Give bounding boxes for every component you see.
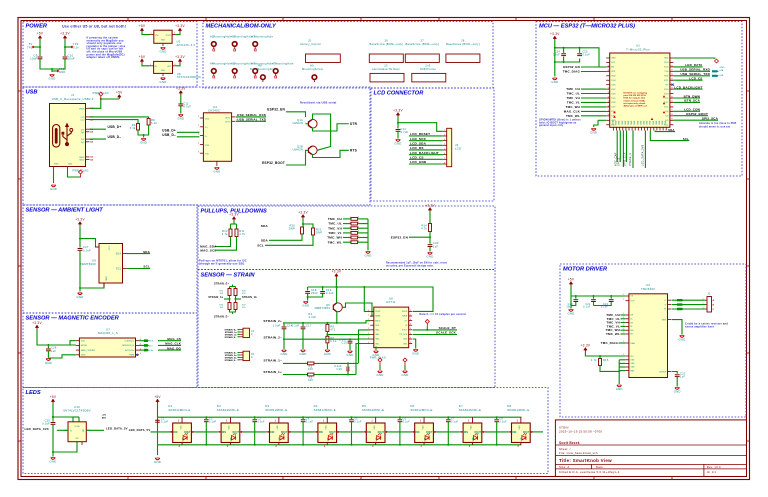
- svg-text:3: 3: [517, 446, 519, 448]
- wire CC1: [90, 117, 149, 119]
- resistor R17: [234, 303, 237, 310]
- wire led rail data: [151, 431, 173, 433]
- svg-text:GND: GND: [613, 120, 615, 125]
- wire motor mode: [672, 372, 678, 374]
- wire pullup2: [302, 219, 313, 228]
- screw 2x3: [412, 64, 446, 82]
- label LED_DATA_5V b: [129, 428, 151, 432]
- svg-text:GND: GND: [720, 67, 725, 69]
- wire shifter out: [86, 429, 104, 431]
- svg-text:SVN: SVN: [611, 76, 616, 78]
- resistor R9: [326, 336, 337, 343]
- svg-text:4.7uF: 4.7uF: [183, 104, 191, 108]
- svg-text:3: 3: [275, 446, 277, 448]
- wire c28 drop: [47, 345, 49, 348]
- svg-text:LCD_RESET: LCD_RESET: [410, 132, 430, 136]
- svg-text:12: 12: [608, 92, 610, 94]
- svg-text:0.1uF: 0.1uF: [306, 421, 314, 424]
- svg-text:VBUS: VBUS: [79, 108, 85, 110]
- svg-text:USB_D–: USB_D–: [162, 133, 176, 137]
- wire motor pwr rail: [571, 286, 625, 306]
- connector J1 USB-C: [50, 104, 94, 171]
- power +5V VBUS: [116, 91, 123, 99]
- svg-text:C16: C16: [336, 367, 342, 371]
- power +3.3V strain: [332, 270, 342, 278]
- svg-text:TMC_UL: TMC_UL: [328, 222, 342, 226]
- wire cap C5: [351, 416, 353, 446]
- svg-text:GND: GND: [154, 460, 161, 464]
- pwr flag strain bottom: [370, 356, 407, 371]
- svg-text:1: 1: [178, 420, 180, 422]
- wire c29 gnd: [52, 424, 77, 456]
- wire mcu right top: [673, 57, 715, 60]
- title block frame: [555, 420, 746, 477]
- section box SENSOR AMBIENT LIGHT: [23, 205, 197, 313]
- wire tmc diag: [619, 342, 626, 344]
- wire mcu right pins: [673, 67, 718, 120]
- svg-text:STRAIN_1a: STRAIN_1a: [208, 296, 223, 299]
- wire hx gnd left: [375, 347, 377, 351]
- svg-text:0.1uF: 0.1uF: [582, 53, 590, 57]
- svg-text:A4: A4: [90, 131, 93, 134]
- wire c15: [349, 339, 351, 350]
- svg-text:circuitry, per Espressif desig: circuitry, per Espressif design note.: [386, 265, 434, 268]
- svg-text:USB_D–: USB_D–: [108, 135, 122, 139]
- connector J5 dummy: [300, 39, 340, 63]
- wire hx gnd right: [413, 339, 416, 349]
- svg-text:350: 350: [220, 293, 224, 295]
- wire data 4: [291, 431, 314, 433]
- svg-text:TMC_UH: TMC_UH: [328, 217, 343, 221]
- connector J2 motor: [703, 292, 715, 313]
- ic U7 magnetic encoder: [76, 338, 141, 357]
- svg-text:A4: A4: [90, 158, 93, 161]
- wire q4 emitter: [336, 312, 338, 324]
- wire pulldown bus: [367, 219, 369, 251]
- wire q1 out: [313, 124, 349, 131]
- wire VBUS to +5V: [90, 98, 120, 108]
- svg-text:VDD: VDD: [81, 340, 86, 342]
- svg-text:350: 350: [242, 307, 246, 309]
- ground hx right: [412, 350, 419, 356]
- svg-text:STRAIN_2–: STRAIN_2–: [264, 335, 283, 339]
- svg-text:3: 3: [421, 446, 423, 448]
- capacitor C11: [178, 101, 191, 108]
- wire U8 in: [142, 63, 150, 66]
- wire q2 out: [313, 150, 349, 157]
- svg-text:LCD_BACKLIGHT: LCD_BACKLIGHT: [410, 151, 439, 155]
- wire strain caps gnd: [307, 293, 323, 300]
- power +5V U8: [139, 55, 146, 63]
- labels J4: [224, 329, 237, 339]
- labels J6: [224, 352, 237, 362]
- svg-text:1: 1: [368, 333, 369, 335]
- svg-text:GND: GND: [281, 352, 288, 356]
- mounting hole H2: [231, 35, 253, 52]
- svg-text:MAG_CLK: MAG_CLK: [165, 342, 181, 346]
- svg-text:21: 21: [671, 65, 673, 67]
- ground strain caps: [302, 302, 309, 308]
- svg-text:GND: GND: [630, 363, 635, 365]
- ground pulldowns: [365, 252, 372, 258]
- svg-text:BaseMountingScrew: BaseMountingScrew: [250, 67, 278, 71]
- wire strain1m rail: [283, 362, 358, 364]
- svg-text:SDA: SDA: [261, 224, 269, 228]
- svg-text:1: 1: [275, 420, 277, 422]
- svg-text:3: 3: [444, 139, 445, 141]
- svg-text:SDA: SDA: [261, 238, 269, 242]
- section box POWER: [23, 22, 197, 88]
- svg-text:1: 1: [444, 130, 445, 132]
- svg-text:9: 9: [410, 314, 411, 316]
- svg-text:0.1uF: 0.1uF: [42, 422, 50, 426]
- svg-text:ESP32_EN: ESP32_EN: [391, 235, 409, 239]
- svg-text:TMC_WL: TMC_WL: [328, 240, 342, 244]
- svg-text:A4: A4: [90, 141, 93, 144]
- svg-text:3.3uF: 3.3uF: [309, 315, 317, 319]
- capacitor C25: [577, 50, 590, 57]
- svg-text:RTS: RTS: [350, 148, 357, 152]
- svg-text:DIN: DIN: [416, 432, 420, 434]
- svg-text:RXD: RXD: [205, 145, 210, 147]
- svg-text:1: 1: [368, 310, 369, 312]
- svg-text:1.5uF: 1.5uF: [273, 324, 281, 328]
- wire strain2m rail: [283, 338, 370, 340]
- svg-text:GND: GND: [637, 120, 639, 125]
- svg-text:LCD_RS: LCD_RS: [410, 146, 424, 150]
- svg-text:C17: C17: [306, 324, 312, 328]
- svg-text:CSn: CSn: [149, 350, 154, 352]
- svg-text:1: 1: [198, 116, 199, 118]
- svg-text:+3.3V: +3.3V: [425, 204, 435, 208]
- svg-text:LCD_SDA: LCD_SDA: [410, 142, 427, 146]
- capacitor C17: [292, 324, 312, 329]
- svg-text:100: 100: [308, 378, 313, 382]
- svg-text:DIN: DIN: [512, 432, 516, 434]
- svg-text:21: 21: [671, 70, 673, 72]
- led D5: [363, 417, 388, 448]
- svg-text:MAG_CLK: MAG_CLK: [564, 110, 581, 114]
- pwr_flag VBUS: [93, 91, 109, 100]
- svg-text:LED_DATA_3V3: LED_DATA_3V3: [642, 144, 645, 166]
- svg-text:GND: GND: [160, 80, 167, 84]
- led D6: [412, 417, 437, 448]
- svg-text:4.7k: 4.7k: [222, 232, 228, 236]
- wire motor brk: [672, 320, 683, 335]
- label U8 value: [177, 72, 201, 79]
- resistor R15: [591, 358, 609, 366]
- svg-text:12: 12: [608, 96, 610, 98]
- power +3.3V ambient: [75, 218, 85, 226]
- svg-text:SHLD: SHLD: [54, 164, 60, 166]
- label MAG_SCL: [200, 248, 216, 252]
- connector J4 strain1: [238, 328, 255, 337]
- svg-text:21: 21: [671, 119, 673, 121]
- svg-text:C27: C27: [83, 245, 89, 249]
- svg-text:4: 4: [140, 353, 141, 355]
- svg-text:3: 3: [372, 446, 374, 448]
- label D4: [314, 404, 336, 412]
- svg-text:LCD_CS: LCD_CS: [410, 156, 424, 160]
- label U10: [63, 405, 91, 413]
- svg-text:0.1uF: 0.1uF: [583, 306, 591, 309]
- transistor Q4: [315, 303, 343, 312]
- wire q4 base: [342, 303, 372, 316]
- svg-text:SCL: SCL: [116, 267, 122, 270]
- wire cap C4: [302, 416, 304, 446]
- svg-text:350: 350: [242, 293, 246, 295]
- svg-text:Reset/boot via USB serial: Reset/boot via USB serial: [300, 101, 337, 105]
- ground r8 r9: [324, 350, 331, 356]
- svg-text:1: 1: [703, 299, 704, 301]
- note pullups i2c: [199, 259, 247, 266]
- capacitor C5: [349, 418, 362, 424]
- svg-text:C15: C15: [341, 341, 347, 345]
- wire shifter in: [57, 429, 68, 431]
- svg-text:DTR: DTR: [350, 122, 358, 126]
- section box SENSOR MAGNETIC ENCODER: [23, 313, 197, 388]
- label SCL mcu: [683, 137, 689, 141]
- wire cap C2: [205, 416, 207, 446]
- svg-text:3: 3: [198, 134, 199, 136]
- svg-text:+3.3V: +3.3V: [298, 211, 308, 215]
- label TMC_DIAG mtr: [601, 341, 619, 345]
- svg-text:SPI2_CLK: SPI2_CLK: [624, 152, 627, 166]
- svg-text:+5V: +5V: [139, 55, 146, 59]
- svg-text:ESP32_EN: ESP32_EN: [563, 65, 580, 69]
- power +5V shifter: [50, 395, 57, 403]
- led D7: [460, 417, 485, 448]
- svg-text:SK6812MINI–E: SK6812MINI–E: [314, 408, 336, 412]
- wire motor vio: [585, 352, 625, 357]
- svg-text:+5V: +5V: [37, 32, 44, 36]
- svg-text:0.1uF: 0.1uF: [326, 291, 334, 295]
- screw 27: [405, 39, 439, 63]
- svg-text:1: 1: [349, 222, 350, 224]
- wire cap C6: [399, 416, 401, 446]
- ground hx left: [373, 351, 380, 357]
- wire Dn2: [90, 138, 107, 140]
- svg-text:GND: GND: [628, 120, 630, 125]
- wire TP1: [33, 40, 41, 56]
- svg-text:7: 7: [444, 158, 445, 160]
- capacitor C23: [675, 372, 686, 379]
- svg-text:SENSOR — STRAIN: SENSOR — STRAIN: [201, 273, 256, 279]
- svg-text:UMH3N: UMH3N: [293, 147, 303, 151]
- section box MECHANICAL/BOM-ONLY: [203, 22, 493, 89]
- svg-text:1: 1: [349, 226, 350, 228]
- svg-text:Rev: v0.0: Rev: v0.0: [707, 465, 721, 469]
- power +5V motor: [568, 278, 575, 286]
- svg-text:LED_DATA: LED_DATA: [685, 63, 703, 67]
- nc cross encoder: [136, 354, 138, 356]
- svg-text:12: 12: [608, 88, 610, 90]
- svg-text:MODE: MODE: [81, 345, 88, 347]
- svg-text:MountingHole: MountingHole: [275, 62, 294, 66]
- svg-text:GND: GND: [161, 40, 166, 42]
- svg-text:A4: A4: [90, 156, 93, 159]
- svg-text:1: 1: [517, 420, 519, 422]
- capacitor C29: [42, 419, 55, 426]
- svg-text:12: 12: [608, 65, 610, 67]
- svg-text:GND: GND: [50, 460, 57, 464]
- power +3.3V pullup2: [298, 211, 308, 219]
- wire cap C7: [447, 416, 449, 446]
- svg-text:27: 27: [421, 39, 425, 43]
- svg-text:GND: GND: [106, 276, 108, 281]
- svg-text:21: 21: [671, 96, 673, 98]
- svg-text:TMC_DIAG: TMC_DIAG: [601, 341, 619, 345]
- svg-text:OUT2: OUT2: [225, 122, 231, 124]
- svg-text:IO15 for outputs that: IO15 for outputs that: [624, 97, 646, 100]
- svg-text:USB_C_Receptacle_USB2.0: USB_C_Receptacle_USB2.0: [52, 97, 94, 101]
- svg-text:LCD_CON: LCD_CON: [684, 108, 700, 112]
- svg-text:adapter taken off U8/EN.: adapter taken off U8/EN.: [87, 56, 121, 59]
- svg-text:general input only: general input only: [539, 124, 564, 127]
- capacitor C2: [204, 418, 217, 424]
- svg-text:B07: B07: [102, 418, 107, 420]
- capacitor C1: [155, 418, 168, 424]
- ground LCD: [395, 140, 402, 146]
- wire led vert: [157, 403, 159, 455]
- section box LEDS: [23, 388, 548, 474]
- power +3.3V MCU: [550, 32, 560, 40]
- resistor R11: [235, 229, 246, 237]
- svg-text:10uF: 10uF: [30, 57, 37, 61]
- label USB_D+ a: [108, 125, 122, 129]
- wire lcd cap dn: [397, 131, 399, 138]
- svg-text:1: 1: [623, 299, 624, 301]
- svg-text:GND: GND: [77, 295, 84, 299]
- svg-text:3.3v: 3.3v: [73, 45, 79, 49]
- svg-text:+5V: +5V: [154, 395, 161, 399]
- capacitor C15: [339, 338, 352, 345]
- svg-text:BaseScrew [BOM—only]: BaseScrew [BOM—only]: [370, 42, 404, 46]
- svg-text:USB_SERIAL_RXD: USB_SERIAL_RXD: [237, 113, 266, 117]
- svg-text:PWM: PWM: [129, 355, 134, 357]
- capacitor C24: [553, 50, 566, 57]
- connector J6 strain2: [238, 351, 255, 360]
- svg-text:DIN: DIN: [367, 432, 371, 434]
- svg-text:GND: GND: [659, 120, 661, 125]
- resistor R10: [228, 289, 231, 296]
- wire motor W: [672, 308, 706, 310]
- wire cap C3: [254, 416, 256, 446]
- svg-text:3: 3: [324, 446, 326, 448]
- svg-text:(though we’ll generally use SS: (though we’ll generally use SSI): [199, 262, 244, 266]
- wire usb esd2: [177, 136, 199, 138]
- svg-text:A: A: [713, 299, 715, 302]
- svg-text:STRAIN_1+: STRAIN_1+: [263, 370, 282, 374]
- svg-text:AVDD: AVDD: [375, 319, 381, 322]
- ground encoder: [45, 359, 52, 365]
- svg-text:T–Micro32_Plus: T–Micro32_Plus: [626, 48, 650, 52]
- label USB_D- a: [108, 135, 122, 139]
- note reset/boot: [300, 101, 337, 105]
- wire sda mcu: [655, 131, 675, 132]
- svg-text:SK6812MINI–E: SK6812MINI–E: [362, 408, 384, 412]
- svg-text:STRAIN_E–: STRAIN_E–: [224, 336, 237, 339]
- wire strain2p rail: [283, 321, 370, 324]
- svg-text:GND: GND: [324, 352, 331, 356]
- resistor R21: [312, 227, 323, 235]
- svg-text:GND: GND: [630, 360, 635, 362]
- label J1: [71, 93, 75, 97]
- mounting screws H8 H9: [250, 64, 323, 83]
- wire hx left misc: [356, 330, 370, 375]
- svg-text:21: 21: [671, 79, 673, 81]
- capacitor C8: [494, 418, 507, 424]
- svg-text:+5V: +5V: [102, 415, 106, 417]
- svg-text:4: 4: [198, 143, 199, 145]
- svg-text:GND: GND: [619, 120, 621, 125]
- svg-text:9: 9: [410, 333, 411, 335]
- svg-text:GND: GND: [161, 70, 166, 72]
- section box MOTOR DRIVER: [560, 264, 746, 417]
- ic U10 level shifter: [64, 422, 90, 445]
- svg-text:12: 12: [608, 101, 610, 103]
- label U5 value: [177, 40, 196, 47]
- svg-text:alumiGlass/TE Rear: alumiGlass/TE Rear: [372, 67, 400, 71]
- svg-text:GND: GND: [625, 120, 627, 125]
- resistor R8: [147, 118, 157, 125]
- svg-text:GND: GND: [653, 120, 655, 125]
- svg-text:GND: GND: [81, 355, 86, 357]
- svg-text:GND: GND: [302, 304, 309, 308]
- svg-text:VDD: VDD: [277, 425, 279, 430]
- wire esd out1: [236, 116, 266, 118]
- svg-text:GND: GND: [412, 352, 419, 356]
- svg-text:VSUP: VSUP: [375, 311, 381, 313]
- power +5V leds: [154, 395, 161, 403]
- power +3.3V encoder: [32, 321, 42, 329]
- section box PULLUPS PULLDOWNS: [198, 206, 495, 270]
- svg-text:Id: 1/1: Id: 1/1: [707, 470, 717, 474]
- svg-text:GND: GND: [590, 131, 597, 135]
- ic U9 light sensor: [95, 244, 127, 288]
- svg-text:VCCA: VCCA: [75, 425, 81, 428]
- note mcu left: [539, 119, 581, 128]
- power +3.3V motor: [581, 344, 591, 352]
- capacitor C16: [334, 364, 349, 371]
- svg-text:VIN: VIN: [155, 35, 159, 37]
- svg-text:GND: GND: [160, 50, 167, 54]
- label MAG_SDA: [200, 245, 217, 249]
- svg-text:VBG: VBG: [403, 343, 408, 345]
- svg-text:GND: GND: [647, 120, 649, 125]
- svg-text:4.7k: 4.7k: [239, 232, 245, 236]
- ground C11: [177, 115, 184, 121]
- svg-text:6: 6: [444, 153, 445, 155]
- svg-text:2: 2: [358, 222, 359, 224]
- svg-text:J5: J5: [308, 39, 312, 43]
- svg-text:VDD: VDD: [422, 425, 424, 430]
- svg-text:GND: GND: [631, 120, 633, 125]
- svg-text:LEDS: LEDS: [26, 390, 41, 396]
- svg-text:SDA: SDA: [143, 250, 151, 254]
- svg-text:SCL: SCL: [257, 243, 264, 247]
- mounting hole H7: [272, 62, 294, 79]
- label U6: [386, 297, 396, 305]
- svg-text:1: 1: [151, 33, 152, 35]
- ground motor caps: [568, 310, 575, 316]
- capacitor C3: [252, 418, 265, 424]
- svg-text:BaseScrew [BOM—only]: BaseScrew [BOM—only]: [446, 42, 480, 46]
- svg-text:ESP32_EN: ESP32_EN: [267, 108, 285, 112]
- svg-text:TXD: TXD: [205, 154, 210, 156]
- labels strain bridge: [208, 282, 257, 318]
- note power paragraph: [87, 37, 126, 59]
